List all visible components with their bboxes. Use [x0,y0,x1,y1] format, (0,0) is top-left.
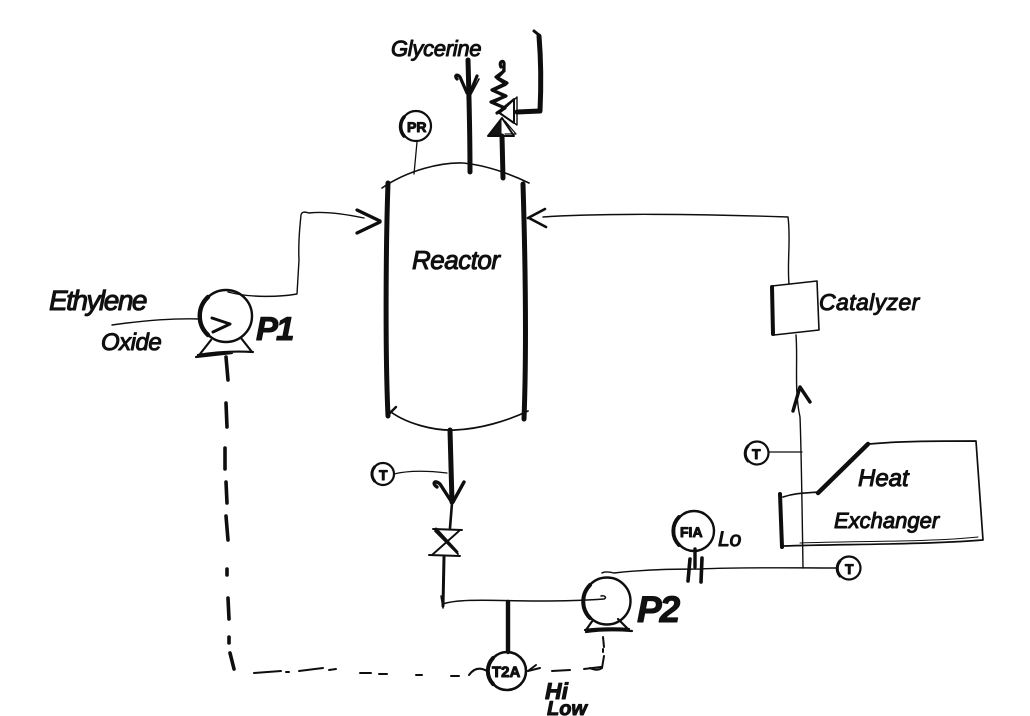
label Catalyzer [819,289,921,315]
pipe into valve [450,503,452,528]
svg-text:PR: PR [407,119,426,135]
pipe below relief valve into reactor [502,136,503,178]
label Oxide [101,329,161,356]
pipe relief discharge L [517,31,541,112]
wire PR to reactor [414,142,417,174]
dashed signal from P1 down [225,357,234,669]
heat exchanger [780,441,983,547]
arrow into reactor right [528,209,546,227]
svg-text:Ethylene: Ethylene [49,285,147,316]
svg-text:FIA: FIA [680,524,703,540]
instrument PR [401,111,431,141]
svg-text:T: T [379,467,388,483]
arrow glycerine down [456,75,479,98]
svg-text:Low: Low [547,698,588,716]
pipe reactor outlet [450,430,452,502]
svg-text:P1: P1 [256,310,293,347]
vessel Reactor top head [382,163,529,188]
dashed signal TIA to P2 [528,637,604,671]
valve bowtie [429,529,462,556]
pipe glycerine feed [468,60,470,172]
pump P2 [583,578,632,633]
instrument FIA [673,511,714,551]
wire T to outlet pipe [394,471,447,474]
label Low [547,698,588,716]
svg-text:P2: P2 [637,589,681,630]
svg-text:Oxide: Oxide [101,329,161,356]
instrument TIA [488,652,526,690]
svg-text:T: T [845,561,854,577]
pipe P2 discharge to heat exchanger [602,568,838,573]
arrow outlet down [434,482,464,502]
pipe recycle top from catalyzer to reactor [543,214,789,284]
pipe P1 discharge riser to reactor [228,212,364,296]
label Lo [718,528,742,551]
svg-text:Reactor: Reactor [412,245,501,275]
dashed signal along bottom to TIA [254,668,487,676]
arrow up to catalyzer [793,387,810,411]
label Glycerine [391,36,481,61]
vessel Reactor bottom head [387,407,528,430]
label Heat [858,465,910,492]
instrument T at heat exchanger inlet [745,442,768,465]
svg-text:Catalyzer: Catalyzer [819,289,921,315]
svg-text:T: T [752,446,761,462]
svg-text:T2A: T2A [492,664,521,681]
relief valve top triangle [498,97,517,125]
pipe below valve [443,557,444,606]
svg-text:Exchanger: Exchanger [834,508,941,533]
orifice flow element [688,549,702,582]
wire T to pipe [769,451,802,453]
svg-text:Glycerine: Glycerine [391,36,481,61]
label Ethylene [49,285,147,316]
label P1 [256,310,293,347]
arrow into reactor left [357,210,380,233]
pipe ethylene inlet to P1 [112,319,201,325]
instrument T at pipe end [837,557,860,580]
label Exchanger [834,508,941,533]
instrument TIA drop line [506,602,510,652]
vessel Reactor right wall [523,184,526,419]
pipe to P2 suction [441,596,605,608]
label Hi [545,678,569,704]
catalyzer box [772,281,819,335]
spring of relief valve [491,61,507,113]
pipe catalyzer inlet from heat exchanger [796,335,803,568]
vessel Reactor left wall [386,183,388,416]
pump P1 [196,290,253,357]
svg-text:Heat: Heat [858,465,910,492]
instrument T at reactor outlet [372,463,394,485]
svg-text:Lo: Lo [718,528,742,551]
relief valve bottom triangle [488,118,516,136]
label P2 [637,589,681,630]
label Reactor [412,245,501,275]
